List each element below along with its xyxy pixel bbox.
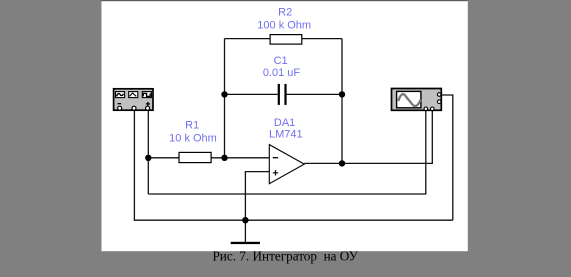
svg-text:LM741: LM741 <box>269 129 303 141</box>
svg-text:10 k Ohm: 10 k Ohm <box>169 133 217 145</box>
svg-text:C1: C1 <box>274 55 288 67</box>
svg-text:R2: R2 <box>278 6 292 18</box>
svg-text:R1: R1 <box>185 120 199 132</box>
svg-text:Рис. 7. Интегратор на ОУ: Рис. 7. Интегратор на ОУ <box>212 248 358 263</box>
svg-text:DA1: DA1 <box>274 117 295 129</box>
svg-text:0.01 uF: 0.01 uF <box>263 67 301 79</box>
svg-text:100 k Ohm: 100 k Ohm <box>257 19 311 31</box>
